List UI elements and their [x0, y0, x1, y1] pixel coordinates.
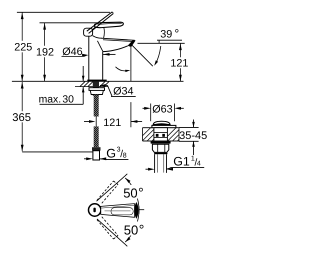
svg-text:Ø63: Ø63 [152, 104, 172, 116]
svg-text:35-45: 35-45 [179, 130, 207, 142]
svg-text:39°: 39° [160, 27, 179, 41]
svg-text:225: 225 [14, 41, 32, 53]
svg-text:121: 121 [103, 117, 121, 129]
svg-text:192: 192 [36, 47, 54, 59]
svg-text:121: 121 [170, 58, 188, 70]
svg-text:50°: 50° [123, 185, 144, 201]
svg-text:50°: 50° [124, 221, 145, 237]
svg-text:Ø34: Ø34 [113, 86, 133, 98]
svg-text:G11/4: G11/4 [173, 155, 201, 169]
svg-text:365: 365 [12, 112, 31, 124]
